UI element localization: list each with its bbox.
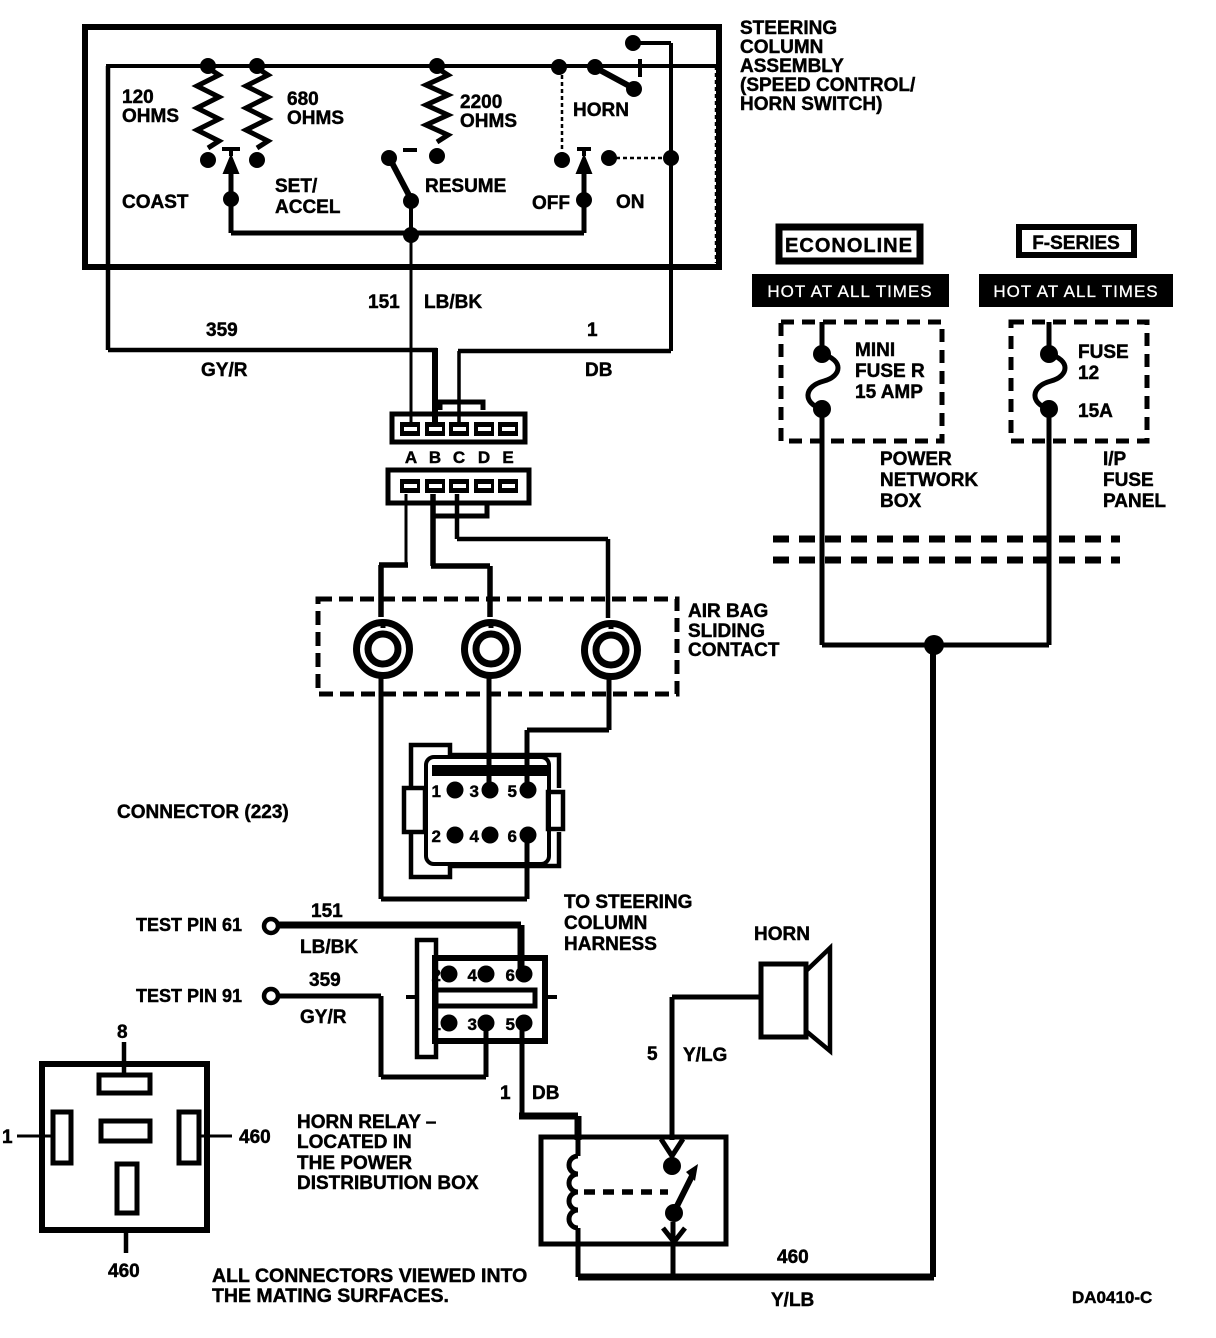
wire 1 DB vertical through box (horn/ON feed) [669, 43, 673, 351]
horn switch fixed tick [638, 59, 642, 77]
svg-text:FUSE: FUSE [1103, 470, 1154, 491]
wire 359 left vertical (inner box left edge down to bus) [106, 66, 111, 350]
svg-text:6: 6 [506, 966, 515, 985]
wire SET/ACCEL wiper to bus [229, 170, 234, 233]
connector lower pin B [425, 479, 445, 493]
wire fuse econoline down [820, 441, 825, 645]
label 120 OHMS [122, 87, 179, 127]
svg-text:I/P: I/P [1103, 449, 1127, 470]
svg-text:TO STEERING: TO STEERING [564, 892, 692, 913]
horn speaker body [761, 964, 806, 1037]
svg-text:BOX: BOX [880, 491, 922, 512]
wire coil1 down to pin6 loop [381, 676, 527, 899]
wire pin C to coil 3 [457, 494, 608, 618]
wire pin6 down [525, 835, 530, 899]
wire DB jog into relay coil [519, 1116, 578, 1140]
svg-text:8: 8 [117, 1022, 128, 1043]
svg-text:ECONOLINE: ECONOLINE [785, 235, 913, 257]
relay coil lead bottom [576, 1228, 581, 1277]
svg-text:CONNECTOR (223): CONNECTOR (223) [117, 802, 289, 823]
harness pin 1 [432, 1015, 458, 1035]
fuse mini lead out [820, 409, 825, 441]
connector 223 pin 5 [508, 782, 537, 802]
dashed separator line 1 [773, 536, 1120, 543]
coil 1 [357, 622, 410, 676]
fuse box f-series dashed [1011, 322, 1147, 441]
wire horn to relay switch [672, 997, 761, 1140]
steering column assembly outer box [85, 27, 719, 267]
svg-text:DB: DB [532, 1083, 559, 1104]
svg-text:HORN RELAY –: HORN RELAY – [297, 1112, 436, 1133]
svg-text:HORN: HORN [754, 924, 810, 945]
test pin 91 ring [264, 989, 278, 1003]
svg-text:3: 3 [468, 1015, 477, 1034]
wire 1 DB from pin 5 down [520, 1023, 525, 1114]
pin letters A B C D E [405, 448, 514, 467]
svg-text:6: 6 [508, 827, 517, 846]
svg-text:4: 4 [470, 827, 480, 846]
wire coil3 down jog to pin 5 [527, 677, 609, 790]
svg-text:1: 1 [432, 782, 441, 801]
connector upper pin D [474, 422, 494, 436]
HOT AT ALL TIMES bar (econoline) [752, 274, 949, 307]
svg-text:MINI: MINI [855, 340, 895, 361]
svg-text:151: 151 [311, 901, 343, 922]
wire 359 horizontal run [108, 348, 437, 353]
switch RESUME blade [390, 159, 411, 199]
resistor 120 OHMS [197, 68, 219, 148]
node dot R1 top [200, 58, 216, 74]
relay switch blade [674, 1174, 693, 1212]
svg-text:HOT AT ALL TIMES: HOT AT ALL TIMES [767, 282, 932, 301]
horn relay box [541, 1137, 726, 1244]
svg-text:5: 5 [506, 1015, 515, 1034]
connector 223 pin 3 [470, 782, 499, 802]
harness pin 3 [468, 1015, 495, 1035]
F-SERIES header box [1019, 227, 1134, 255]
node dot R3 top [429, 58, 445, 74]
junction dot on bus (151 takeoff) [403, 227, 419, 243]
svg-text:HARNESS: HARNESS [564, 934, 657, 955]
relay pinout lead 460 right [197, 1135, 232, 1138]
svg-text:HOT AT ALL TIMES: HOT AT ALL TIMES [993, 282, 1158, 301]
node dot R1 bottom [200, 152, 216, 168]
junction dot feed [924, 635, 944, 655]
svg-text:SET/: SET/ [275, 176, 318, 197]
wire 359 to harness pin 3 [278, 996, 486, 1077]
svg-text:DISTRIBUTION BOX: DISTRIBUTION BOX [297, 1173, 479, 1194]
bus wire inside box [231, 231, 584, 236]
wire ON dotted link [609, 157, 671, 160]
node dot R2 top [249, 58, 265, 74]
node dot horn top line A [551, 59, 567, 75]
harness connector right tick [545, 995, 557, 999]
svg-text:460: 460 [239, 1127, 271, 1148]
HOT AT ALL TIMES bar (f-series) [979, 274, 1173, 307]
wire pin B to coil 2 [431, 494, 490, 617]
wire 151 from bus down to pin A [410, 237, 413, 424]
label TO STEERING COLUMN HARNESS [564, 892, 692, 955]
fuse mini S element [808, 354, 838, 409]
connector 223 pin 1 [432, 782, 464, 802]
svg-text:5: 5 [508, 782, 517, 801]
fuse 12 top dot [1040, 345, 1058, 363]
svg-text:1: 1 [2, 1127, 13, 1148]
wire fuse f-series down [1047, 441, 1052, 645]
node dot RESUME lower [403, 193, 419, 209]
svg-text:POWER: POWER [880, 449, 952, 470]
svg-text:CONTACT: CONTACT [688, 640, 780, 661]
wire OFF to bus corner [582, 200, 587, 233]
fuse 12 lead in [1047, 322, 1052, 348]
note ALL CONNECTORS VIEWED [212, 1265, 527, 1307]
svg-text:AIR BAG: AIR BAG [688, 601, 768, 622]
horn switch blade [596, 68, 633, 88]
harness pin 5 [506, 1015, 533, 1035]
svg-text:ON: ON [616, 192, 645, 213]
switch RESUME fixed tee [403, 148, 417, 152]
switch SET/ACCEL wiper arrow [224, 156, 238, 173]
wire 460 bottom bus [578, 1274, 934, 1281]
harness connector left tick [406, 995, 417, 999]
inner box top line [106, 64, 716, 68]
relay pinout right slot [179, 1112, 199, 1163]
svg-text:COAST: COAST [122, 192, 189, 213]
relay pinout lead 1 [17, 1135, 55, 1138]
wire pin A jog thick parts [379, 565, 408, 617]
fuse mini bottom dot [813, 400, 831, 418]
coil 2 [465, 622, 518, 676]
wire 1 DB drop to pin C [457, 351, 461, 424]
svg-text:F-SERIES: F-SERIES [1032, 233, 1120, 254]
label FUSE 12 15A [1078, 342, 1129, 422]
svg-text:B: B [429, 448, 441, 467]
relay pinout bottom slot [117, 1164, 137, 1213]
fuse 12 bottom dot [1040, 400, 1058, 418]
coil 3 [585, 623, 638, 677]
svg-text:ACCEL: ACCEL [275, 197, 341, 218]
connector 223 pin 2 [432, 827, 464, 847]
svg-text:LB/BK: LB/BK [300, 937, 358, 958]
svg-text:THE POWER: THE POWER [297, 1153, 412, 1174]
svg-text:460: 460 [777, 1247, 809, 1268]
label HORN RELAY LOCATED [297, 1112, 479, 1194]
svg-text:1: 1 [432, 1015, 441, 1034]
svg-text:680: 680 [287, 89, 319, 110]
svg-text:Y/LB: Y/LB [771, 1290, 814, 1311]
fuse 12 S element [1035, 354, 1065, 409]
node dot horn top line B [587, 59, 603, 75]
air bag sliding contact dashed box [318, 599, 677, 694]
relay switch bottom contact dot [665, 1204, 683, 1222]
relay dashed actuator link [584, 1189, 668, 1195]
svg-text:STEERING: STEERING [740, 18, 837, 39]
relay coil [569, 1156, 578, 1228]
svg-text:GY/R: GY/R [300, 1007, 347, 1028]
svg-text:OHMS: OHMS [460, 111, 517, 132]
node dot SET/ACCEL [223, 191, 239, 207]
wire RESUME to bus [409, 201, 413, 237]
svg-text:A: A [405, 448, 417, 467]
svg-text:ASSEMBLY: ASSEMBLY [740, 56, 844, 77]
relay coil lead top [576, 1137, 581, 1156]
svg-text:151: 151 [368, 292, 400, 313]
svg-text:OHMS: OHMS [287, 108, 344, 129]
connector 223 left tab [404, 788, 425, 832]
node dot R3 bottom [429, 148, 445, 164]
svg-text:2: 2 [432, 827, 441, 846]
svg-text:3: 3 [470, 782, 479, 801]
svg-text:THE MATING SURFACES.: THE MATING SURFACES. [212, 1285, 449, 1307]
svg-text:RESUME: RESUME [425, 176, 506, 197]
horn switch blade dot [626, 81, 642, 97]
label STEERING COLUMN ASSEMBLY [740, 18, 916, 115]
harness pin 2 [432, 966, 458, 986]
fuse 12 lead out [1047, 409, 1052, 441]
svg-text:COLUMN: COLUMN [740, 37, 823, 58]
node dot R2 bottom [249, 152, 265, 168]
connector 223 top bar [432, 765, 548, 776]
node dot OFF [576, 192, 592, 208]
svg-text:LB/BK: LB/BK [424, 292, 482, 313]
svg-text:OHMS: OHMS [122, 106, 179, 127]
harness connector key slot [436, 990, 535, 1006]
label 2200 OHMS [460, 92, 517, 132]
svg-text:460: 460 [108, 1261, 140, 1282]
svg-text:12: 12 [1078, 363, 1099, 384]
relay pinout wire 8 [122, 1042, 127, 1078]
wire 1 DB horizontal run [458, 349, 671, 354]
svg-text:(SPEED CONTROL/: (SPEED CONTROL/ [740, 75, 916, 96]
switch OFF fixed tee [577, 149, 591, 156]
wire 460 main vertical [930, 645, 936, 1277]
switch RESUME pivot dot [381, 150, 397, 166]
OFF fixed contact dot [554, 152, 570, 168]
horn speaker flare [806, 948, 830, 1051]
svg-text:NETWORK: NETWORK [880, 470, 978, 491]
connector 223 pin 4 [470, 827, 499, 847]
label I/P FUSE PANEL [1103, 449, 1166, 512]
relay switch blade arrowhead [686, 1164, 698, 1181]
svg-text:DB: DB [585, 360, 612, 381]
label SET/ACCEL [275, 176, 341, 218]
switch SET/ACCEL fixed contact tee [222, 149, 240, 156]
svg-text:ALL CONNECTORS VIEWED INTO: ALL CONNECTORS VIEWED INTO [212, 1265, 527, 1287]
relay switch top contact dot [663, 1157, 681, 1175]
svg-text:2: 2 [432, 966, 441, 985]
connector upper pin E [498, 422, 518, 436]
svg-text:C: C [453, 448, 465, 467]
svg-text:1: 1 [500, 1083, 511, 1104]
svg-text:D: D [478, 448, 490, 467]
resistor 2200 OHMS [426, 68, 448, 142]
ON contact dot right [663, 150, 679, 166]
svg-text:359: 359 [309, 970, 341, 991]
wire relay switch to bus [671, 1222, 676, 1277]
label POWER NETWORK BOX [880, 449, 978, 512]
svg-text:15 AMP: 15 AMP [855, 382, 923, 403]
wire 151 to harness pin 6 [278, 925, 521, 974]
horn contact dot upper [625, 35, 641, 51]
connector 223 right tab [548, 792, 563, 829]
svg-text:FUSE: FUSE [1078, 342, 1129, 363]
label 680 OHMS [287, 89, 344, 129]
svg-text:SLIDING: SLIDING [688, 621, 765, 642]
svg-text:TEST PIN 61: TEST PIN 61 [136, 915, 242, 935]
resistor 680 OHMS [246, 68, 268, 148]
svg-text:1: 1 [587, 320, 598, 341]
harness connector left tab [417, 940, 436, 1057]
svg-text:120: 120 [122, 87, 154, 108]
relay pinout center slot [101, 1121, 150, 1141]
relay switch top chevron [661, 1139, 683, 1156]
svg-text:5: 5 [647, 1044, 658, 1065]
wire fuse join horizontal [822, 643, 1049, 648]
wire OFF fixed contact drop [561, 68, 564, 154]
svg-text:2200: 2200 [460, 92, 502, 113]
svg-text:15A: 15A [1078, 401, 1113, 422]
harness pin 4 [468, 966, 495, 986]
svg-text:359: 359 [206, 320, 238, 341]
svg-text:E: E [502, 448, 513, 467]
svg-text:TEST PIN 91: TEST PIN 91 [136, 986, 242, 1006]
svg-text:OFF: OFF [532, 193, 570, 214]
connector lower body [388, 470, 529, 516]
relay pinout lead 460 bottom [124, 1230, 129, 1253]
harness connector body [435, 958, 545, 1041]
ON contact dot left [601, 150, 617, 166]
switch OFF wiper arrow [577, 156, 591, 173]
svg-text:DA0410-C: DA0410-C [1072, 1288, 1152, 1307]
connector lower pin A [400, 479, 420, 493]
relay pinout left slot [53, 1112, 71, 1163]
label AIR BAG SLIDING CONTACT [688, 601, 780, 661]
fuse mini top dot [813, 345, 831, 363]
test pin 61 ring [264, 919, 278, 933]
dashed separator line 2 [773, 557, 1120, 564]
relay pinout top slot [99, 1075, 150, 1093]
inner box right dotted edge [715, 66, 718, 263]
connector upper pin A [400, 422, 420, 436]
svg-text:Y/LG: Y/LG [683, 1045, 727, 1066]
connector 223 outer outline [411, 745, 559, 877]
svg-text:COLUMN: COLUMN [564, 913, 647, 934]
connector upper body [392, 402, 525, 442]
wire horn contact to ON wire [633, 41, 671, 45]
wire coil2 down to pin 3 [487, 676, 492, 790]
svg-text:GY/R: GY/R [201, 360, 248, 381]
ECONOLINE header box [779, 227, 920, 261]
connector lower pin D [474, 479, 494, 493]
wire pin A to coil 1 [381, 494, 408, 617]
connector upper pin B [425, 422, 445, 436]
svg-text:HORN: HORN [573, 100, 629, 121]
fuse mini lead in [820, 322, 825, 348]
relay pinout box [42, 1064, 207, 1230]
connector 223 inner outline [426, 757, 549, 864]
svg-text:4: 4 [468, 966, 478, 985]
relay switch bottom chevron [663, 1228, 685, 1242]
fuse box econoline dashed [781, 322, 942, 441]
svg-text:FUSE R: FUSE R [855, 361, 925, 382]
harness pin 6 [506, 966, 533, 986]
svg-text:PANEL: PANEL [1103, 491, 1166, 512]
connector 223 pin 6 [508, 827, 537, 847]
svg-text:HORN SWITCH): HORN SWITCH) [740, 94, 882, 115]
wire 359 drop to pin B [432, 348, 438, 426]
connector lower pin E [498, 479, 518, 493]
connector upper pin C [449, 422, 469, 436]
wire OFF wiper to dot [582, 170, 587, 200]
svg-text:LOCATED IN: LOCATED IN [297, 1132, 412, 1153]
connector lower pin C [449, 479, 469, 493]
label MINI FUSE R 15 AMP [855, 340, 925, 403]
